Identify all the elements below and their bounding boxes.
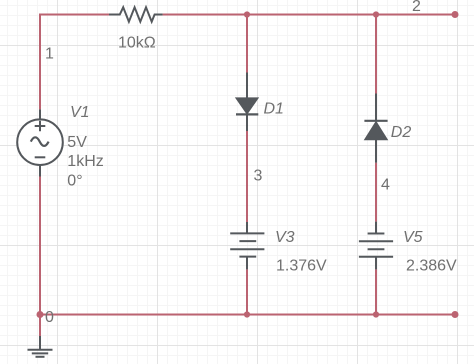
battery V3 top stub [246, 222, 248, 233]
svg-text:2: 2 [412, 0, 421, 15]
wire ground stub [39, 315, 41, 337]
endpoint dot node 0 right end [452, 311, 459, 318]
junction dot node 2 at middle branch [244, 11, 250, 17]
battery V3 bottom stub [246, 257, 248, 270]
svg-text:V1: V1 [70, 104, 90, 121]
battery V3 plate 1 (long) [230, 232, 264, 234]
wire left rail lower + bottom rail (node 0) [40, 177, 455, 315]
svg-text:D2: D2 [391, 124, 412, 141]
battery V3 plate 4 (short) [239, 256, 256, 258]
junction dot node 2 at right branch [373, 11, 379, 17]
diode D1 bottom lead [246, 114, 248, 131]
svg-text:V3: V3 [275, 229, 295, 246]
endpoint dot node 2 right end [452, 11, 459, 18]
svg-text:3: 3 [254, 168, 263, 185]
svg-text:D1: D1 [264, 100, 284, 117]
wire middle branch upper (node 2 to D1) [246, 15, 248, 73]
diode D2 bottom lead [375, 140, 377, 163]
svg-text:1.376V: 1.376V [276, 258, 327, 275]
diode D1 top lead [246, 73, 248, 99]
diode D2 top lead [375, 94, 377, 121]
svg-text:0: 0 [45, 309, 54, 326]
svg-text:1kHz: 1kHz [67, 153, 103, 170]
junction dot node 0 at middle branch [244, 311, 250, 317]
battery V3 plate 3 (long) [230, 248, 264, 250]
source V1 bottom lead [39, 165, 41, 177]
battery V5 top stub [375, 222, 377, 234]
svg-text:1: 1 [45, 45, 54, 62]
source V1 plus sign [35, 121, 46, 132]
diode D2 cathode bar [364, 120, 387, 122]
junction dot node 0 at right branch [373, 311, 379, 317]
battery V5 plate 3 (short) [368, 248, 385, 250]
battery V5 plate 4 (long) [359, 256, 393, 258]
diode D1 cathode bar [236, 113, 258, 115]
wire right branch upper (node 2 to D2) [375, 15, 377, 94]
ground symbol [28, 336, 53, 357]
wire right branch mid (node 4, D2 to V5) [375, 163, 377, 222]
wire middle branch mid (node 3, D1 to V3) [246, 131, 248, 222]
wire top-left corner segment (node 1) [40, 15, 109, 110]
svg-text:5V: 5V [67, 134, 87, 151]
wire middle branch lower (V3 to node 0) [246, 269, 248, 314]
wire top rail right segment (node 2) [163, 14, 455, 16]
svg-text:10kΩ: 10kΩ [118, 35, 156, 52]
battery V5 bottom stub [375, 257, 377, 270]
diode D2 triangle [365, 122, 388, 140]
svg-text:V5: V5 [403, 229, 423, 246]
resistor R1 body [109, 7, 163, 21]
source V1 sine symbol [31, 137, 49, 146]
svg-text:2.386V: 2.386V [406, 258, 457, 275]
battery V5 plate 1 (short) [368, 233, 385, 235]
source V1 circle body [17, 119, 63, 165]
wire right branch lower (V5 to node 0) [375, 269, 377, 314]
diode D1 triangle [236, 98, 258, 114]
svg-text:0°: 0° [67, 172, 82, 189]
battery V5 plate 2 (long) [359, 240, 393, 242]
svg-text:4: 4 [381, 176, 390, 193]
junction dot node 0 at ground [37, 311, 44, 318]
source V1 top lead [39, 109, 41, 119]
source V1 minus sign [35, 156, 46, 158]
battery V3 plate 2 (short) [239, 240, 256, 242]
